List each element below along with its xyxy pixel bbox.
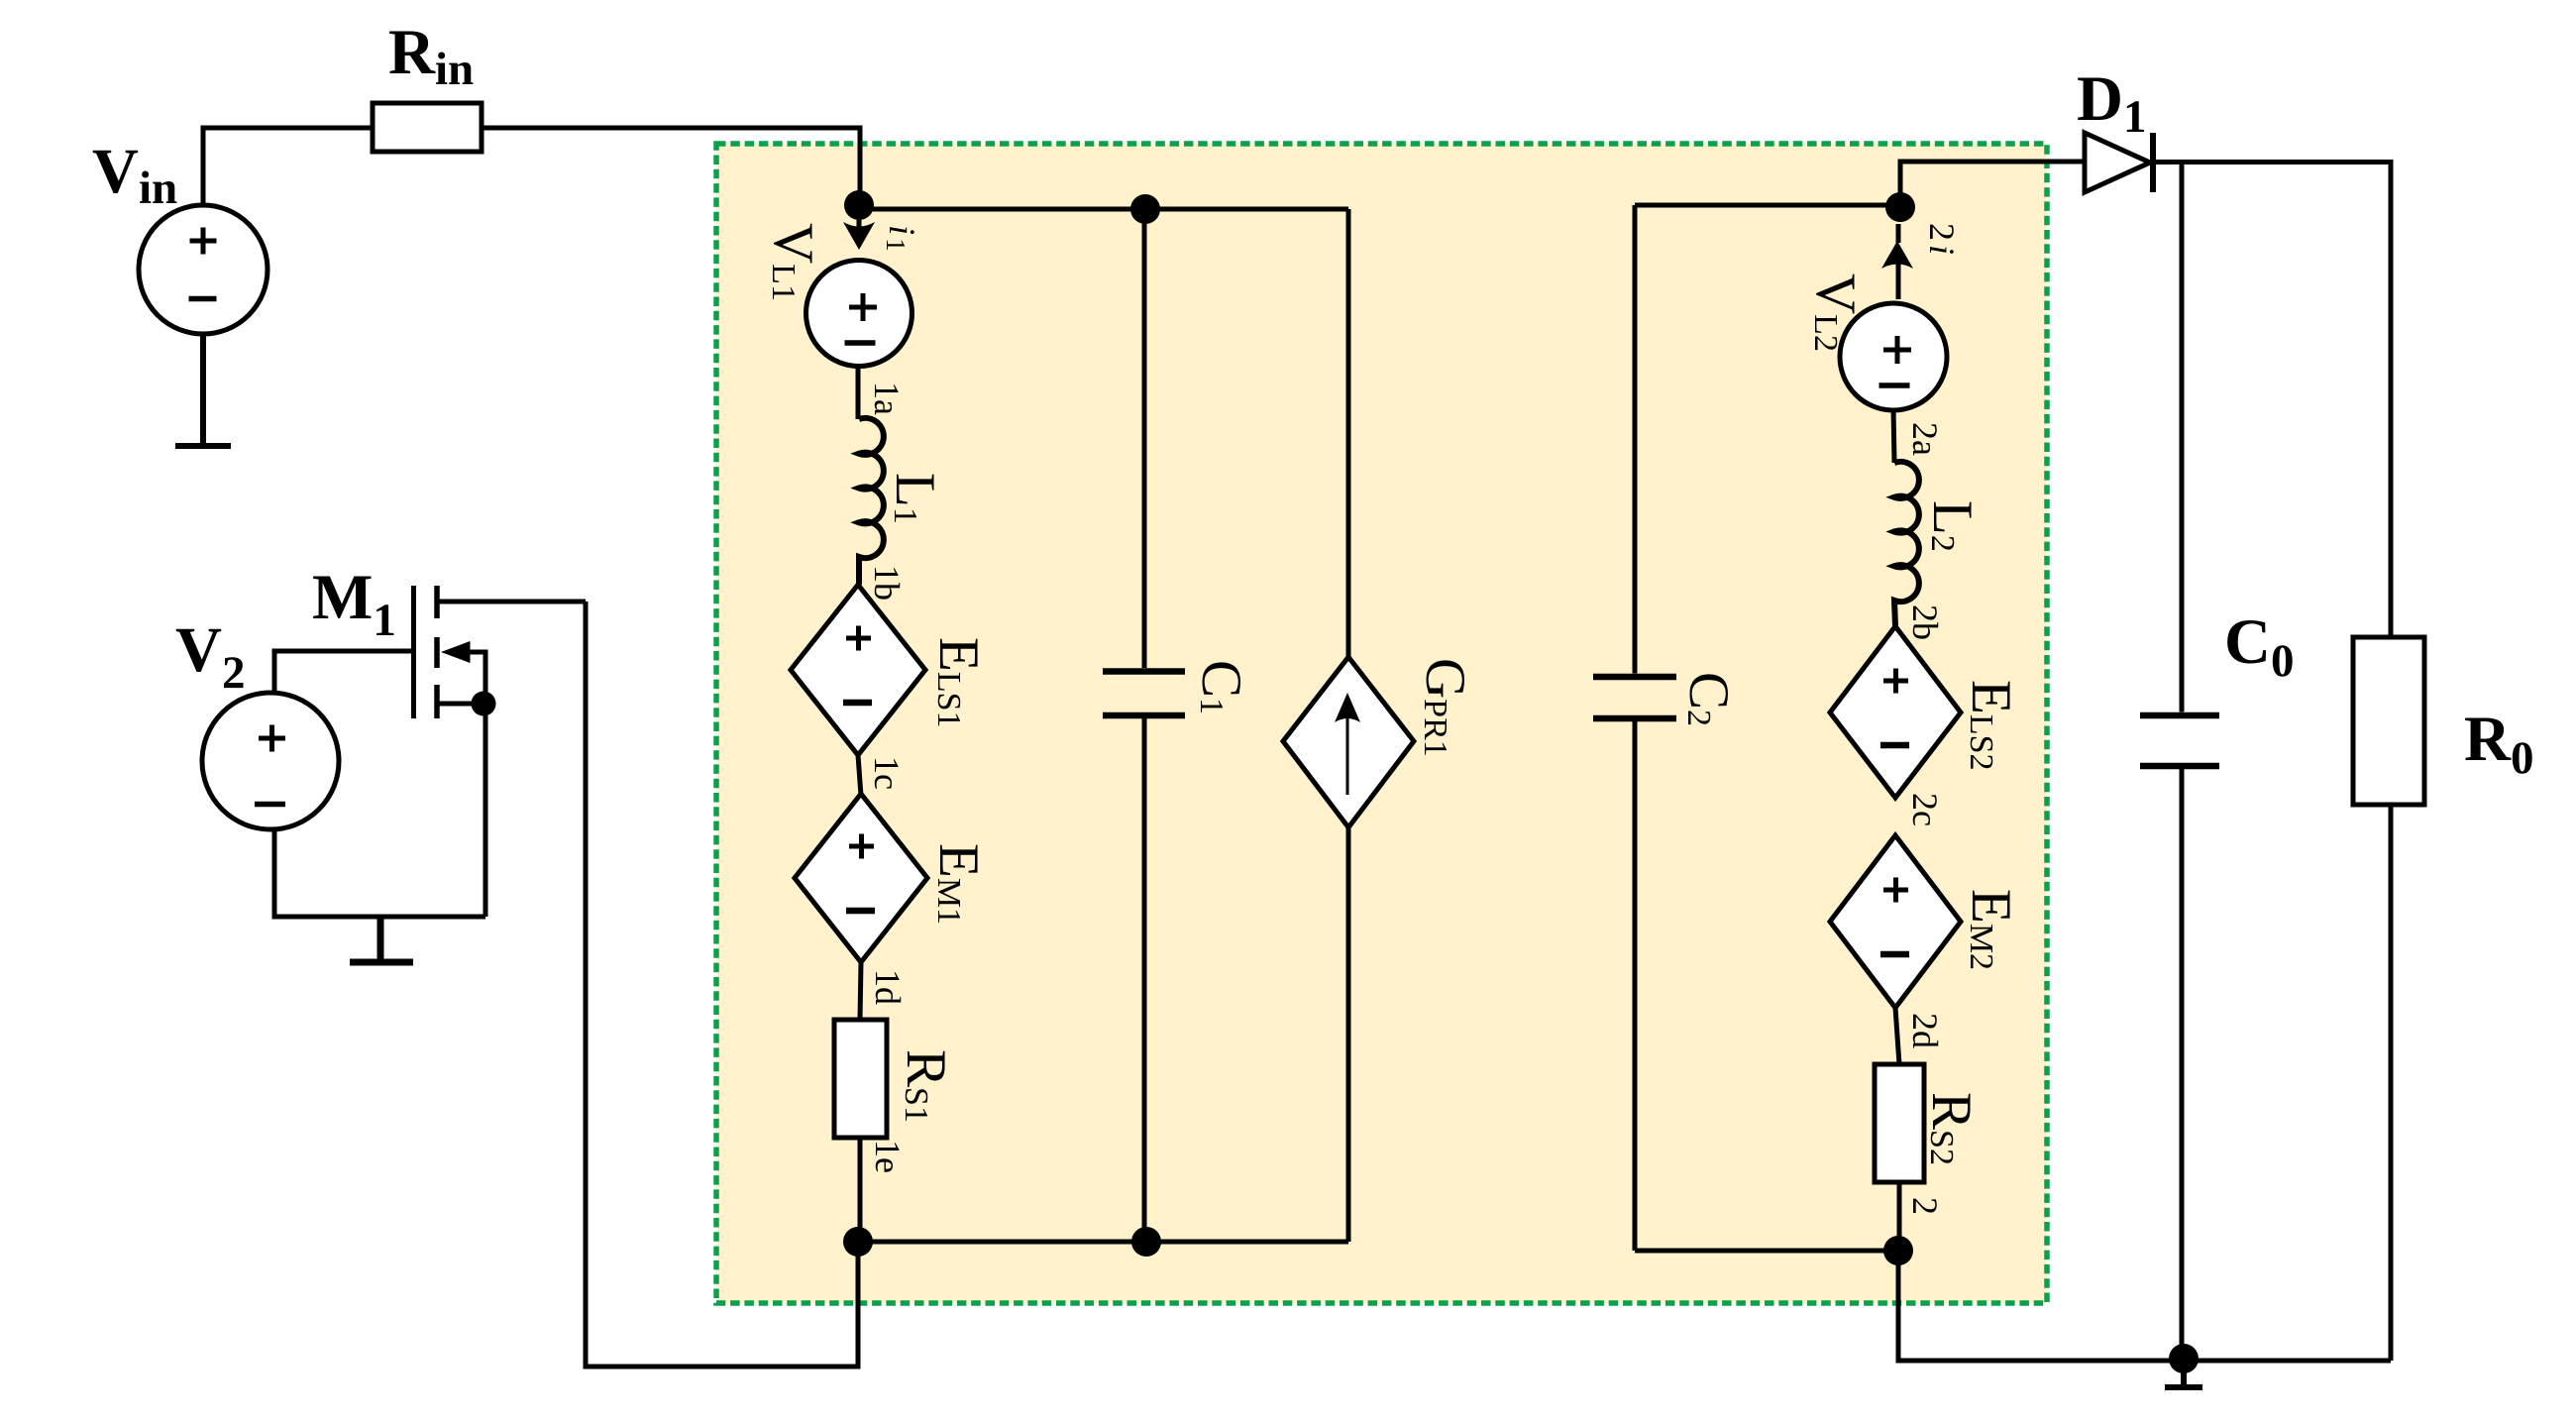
svg-text:D1: D1: [2077, 63, 2146, 143]
capacitor C0: [2140, 163, 2219, 1360]
dependent source E_M2: [1830, 835, 1961, 1008]
svg-text:1a: 1a: [867, 382, 907, 415]
svg-text:2b: 2b: [1905, 604, 1945, 640]
svg-text:1b: 1b: [867, 565, 907, 601]
svg-text:2: 2: [1905, 1197, 1945, 1215]
node dot 2: [1883, 1236, 1913, 1265]
node dot C1 bottom: [1131, 1227, 1161, 1257]
wire R_S1 to bottom rail: [858, 1138, 863, 1242]
voltage source VL1: [806, 261, 912, 367]
wire gate to V2: [274, 651, 413, 694]
node dot C1 top: [1130, 194, 1160, 224]
inductor L2: [1894, 462, 1919, 626]
svg-text:2i: 2i: [1922, 223, 1962, 255]
current arrow i2: [1881, 241, 1913, 269]
svg-text:2a: 2a: [1905, 422, 1945, 456]
dashed green boundary: [716, 144, 2047, 1303]
svg-text:1c: 1c: [867, 756, 907, 790]
wire VL1 to L1: [856, 365, 861, 419]
wire M1 drain to transformer bottom: [586, 602, 858, 1367]
transformer model shaded region: [716, 144, 2047, 1303]
node dot 2i: [1885, 192, 1915, 222]
capacitor C2: [1593, 205, 1676, 1251]
voltage source Vin: [139, 205, 268, 334]
wire D1 to R0 branch: [2156, 163, 2391, 638]
svg-text:C0: C0: [2224, 606, 2294, 687]
diode D1: [2085, 133, 2156, 192]
node dot bottom left: [843, 1227, 873, 1257]
voltage source VL2: [1840, 303, 1947, 410]
voltage source V2: [202, 693, 339, 829]
resistor R0: [2353, 637, 2424, 805]
node dot output ground: [2169, 1344, 2199, 1373]
ground (output): [2165, 1359, 2202, 1387]
wire Rin to node 1: [482, 128, 860, 194]
wire R_S2 to node dot 2: [1897, 1182, 1902, 1251]
wire node 2i up to D1: [1900, 162, 2085, 207]
capacitor C1: [1103, 209, 1185, 1242]
wire top rail right: [1635, 203, 1900, 208]
resistor R_S1: [834, 1020, 887, 1138]
wire bottom rail left: [858, 1240, 1348, 1245]
controlled source G_PR1: [1283, 657, 1414, 827]
svg-text:2c: 2c: [1905, 793, 1945, 826]
wire E_LS1 to E_M1: [858, 755, 861, 796]
wire C2 bottom to node 2: [1635, 1249, 1898, 1254]
dependent source E_LS2: [1830, 626, 1961, 798]
svg-text:Vin: Vin: [92, 136, 177, 214]
wire top rail left: [859, 207, 1348, 212]
wire R0 bottom: [2389, 805, 2394, 1361]
inductor L1: [859, 418, 884, 585]
resistor R_S2: [1875, 1064, 1924, 1182]
svg-text:V2: V2: [175, 614, 245, 699]
wire Vin top to Rin: [203, 128, 373, 204]
wire G_PR1 bottom: [1346, 827, 1351, 1242]
svg-text:Rin: Rin: [388, 17, 474, 95]
wire V2 bottom: [274, 828, 485, 917]
dependent source E_LS1: [791, 585, 925, 755]
dependent source E_M1: [795, 794, 927, 962]
svg-text:R0: R0: [2464, 704, 2533, 784]
wire E_M1 to R_S1: [860, 962, 861, 1020]
wire to G_PR1 top: [1346, 209, 1351, 657]
svg-text:1d: 1d: [868, 969, 908, 1005]
svg-text:M1: M1: [312, 562, 396, 646]
node dot 1: [844, 190, 874, 220]
wire E_M2 to R_S2: [1895, 1008, 1899, 1064]
wire VL2 to L2: [1893, 408, 1894, 463]
svg-text:1e: 1e: [868, 1140, 908, 1173]
transistor M1: [414, 586, 587, 917]
resistor Rin: [373, 103, 482, 152]
ground (M1 source): [350, 917, 413, 962]
current arrow i1: [843, 222, 875, 250]
svg-text:2d: 2d: [1905, 1013, 1945, 1048]
ground (Vin): [175, 333, 231, 446]
wire node 2 down to output rail: [1898, 1251, 2391, 1361]
